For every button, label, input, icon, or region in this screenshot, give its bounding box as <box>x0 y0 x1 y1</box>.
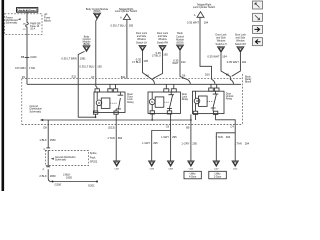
svg-text:0.8 ORN: 0.8 ORN <box>15 66 26 70</box>
relay K3 label <box>226 93 234 101</box>
note box Utility 2-Door <box>209 171 227 179</box>
border bar left <box>2 0 5 191</box>
svg-text:1381: 1381 <box>80 56 86 60</box>
splice pack label <box>90 152 98 163</box>
svg-text:B8: B8 <box>21 55 25 59</box>
I/P Fuse Block label <box>44 13 51 23</box>
svg-text:2 BLK: 2 BLK <box>39 174 47 178</box>
svg-text:194: 194 <box>204 21 209 25</box>
toolbar button 3 <box>253 25 263 33</box>
svg-text:SP202: SP202 <box>90 161 98 164</box>
BCM connector mid-right <box>176 32 185 50</box>
svg-text:10 A: 10 A <box>30 27 35 30</box>
svg-text:2-Door: 2-Door <box>214 175 222 178</box>
hook D6 <box>187 79 191 84</box>
svg-text:Relay: Relay <box>127 101 134 104</box>
svg-text:C451: C451 <box>233 168 238 170</box>
svg-text:C9: C9 <box>166 124 170 128</box>
wire A7 into relay 1 <box>96 79 97 89</box>
hook D10 <box>212 79 216 84</box>
Tailgate/Right Lock Cylinder Switch connector A (right) <box>193 4 216 18</box>
fuse F14 <box>23 22 41 31</box>
svg-text:Lock Cylinder Switch: Lock Cylinder Switch <box>193 6 216 9</box>
svg-text:1550: 1550 <box>50 138 56 142</box>
svg-text:E11: E11 <box>72 74 77 78</box>
svg-text:C407: C407 <box>214 168 219 170</box>
door lock relay K2 <box>148 84 181 114</box>
svg-text:0.35 LT BRN: 0.35 LT BRN <box>61 56 76 60</box>
internal feed bus <box>27 79 241 85</box>
hook A6 <box>151 79 155 85</box>
svg-text:C4: C4 <box>230 124 234 128</box>
svg-text:Relay: Relay <box>182 98 189 101</box>
svg-text:194: 194 <box>181 60 186 64</box>
svg-text:C200: C200 <box>30 55 37 59</box>
wire 0.35 LT BLU 195 to B11 <box>126 20 128 79</box>
relay block dashed box <box>22 74 243 125</box>
svg-text:C407: C407 <box>114 168 119 170</box>
svg-text:Splice: Splice <box>90 152 97 155</box>
bottom connector triangles <box>114 161 239 171</box>
wire 0.35 LT BLU 195 from BCM <box>96 19 97 79</box>
svg-text:194: 194 <box>242 60 247 64</box>
svg-text:295: 295 <box>192 142 197 146</box>
Body Relay Block label <box>245 75 252 83</box>
svg-text:C409: C409 <box>149 168 154 170</box>
svg-text:1 GRY: 1 GRY <box>161 135 169 139</box>
svg-text:Switch RH: Switch RH <box>235 43 246 46</box>
svg-text:294: 294 <box>245 142 250 146</box>
svg-text:Block: Block <box>44 19 51 23</box>
note box Utility 4-Door <box>184 171 201 179</box>
Door Lock and Side Window Switch RH connector (right) <box>235 33 247 52</box>
svg-text:WHT: WHT <box>172 61 178 65</box>
svg-text:1 TAN: 1 TAN <box>107 136 114 140</box>
wire from header into fuse block <box>26 12 28 22</box>
Power Distribution Schematic reference <box>6 16 21 24</box>
svg-text:(BCM): (BCM) <box>94 10 101 13</box>
svg-text:G200: G200 <box>55 183 62 187</box>
wire unlock LH merge <box>221 52 230 79</box>
wire D13 1 TAN 694 <box>115 114 117 161</box>
svg-text:1650: 1650 <box>66 175 72 179</box>
svg-text:M: M <box>151 100 153 104</box>
svg-text:Schematic: Schematic <box>6 21 18 24</box>
svg-text:1740: 1740 <box>29 66 35 70</box>
svg-text:B11: B11 <box>121 75 126 79</box>
svg-text:195: 195 <box>144 59 149 63</box>
svg-text:F9: F9 <box>22 75 26 79</box>
svg-text:M: M <box>196 99 198 103</box>
svg-text:Hot At All Times: Hot At All Times <box>19 9 36 12</box>
svg-text:194: 194 <box>222 55 227 59</box>
relay K1 label <box>127 93 134 104</box>
svg-text:1650: 1650 <box>50 174 56 178</box>
svg-text:Relay: Relay <box>226 98 233 101</box>
svg-text:295: 295 <box>172 135 177 139</box>
svg-text:1 GRY: 1 GRY <box>181 142 189 146</box>
ground G200 <box>52 181 54 183</box>
wire 0.35 WHT 194 to D10 <box>200 17 212 79</box>
svg-text:D10: D10 <box>205 73 210 77</box>
Door Lock and Side Window Switch-RH connector (mid) <box>157 32 169 51</box>
svg-text:Switch-LH: Switch-LH <box>216 43 227 46</box>
svg-text:C406: C406 <box>189 168 194 170</box>
svg-text:1 TAN: 1 TAN <box>215 135 222 139</box>
junction <box>95 116 97 118</box>
wire unlock RH merge <box>232 52 241 76</box>
wire E11 internal <box>78 79 95 118</box>
svg-text:295: 295 <box>153 141 158 145</box>
svg-text:195: 195 <box>97 64 102 68</box>
svg-text:B9: B9 <box>186 126 190 130</box>
svg-text:M: M <box>98 101 100 105</box>
svg-text:195: 195 <box>129 23 134 27</box>
svg-text:0.35 WHT: 0.35 WHT <box>207 55 219 59</box>
Hot At All Times header box <box>17 8 38 13</box>
svg-text:Block: Block <box>245 81 252 84</box>
svg-text:0.35 LT BLU: 0.35 LT BLU <box>79 64 94 68</box>
Door Lock and Side Window Switch-LH connector (right) <box>216 33 228 52</box>
ground bus internal <box>40 114 196 125</box>
svg-text:Lock Cylinder Switch: Lock Cylinder Switch <box>115 10 138 13</box>
svg-text:294: 294 <box>226 135 231 139</box>
svg-text:LT BLU: LT BLU <box>132 60 141 64</box>
svg-text:4-Door: 4-Door <box>189 175 197 178</box>
Tailgate/Right Lock Cylinder Switch connector A (left) <box>115 8 138 20</box>
wire lock LH <box>143 51 152 79</box>
svg-text:A7: A7 <box>91 75 95 79</box>
svg-text:D6: D6 <box>182 74 186 78</box>
svg-text:1 TAN: 1 TAN <box>234 142 241 146</box>
wire lock RH merge <box>153 51 163 79</box>
svg-text:1 BLK: 1 BLK <box>39 138 47 142</box>
Door Lock and Side Window Switch-LH connector (mid) <box>136 32 148 51</box>
I/P fuse block dashed box <box>5 14 42 35</box>
svg-text:Pack: Pack <box>90 156 96 159</box>
svg-text:694: 694 <box>118 136 123 140</box>
wire B9 1 GRY 295 <box>190 120 192 161</box>
svg-text:0.35 WHT: 0.35 WHT <box>227 60 239 64</box>
Ground Distribution Schematic reference (module) <box>30 105 43 113</box>
svg-text:0.35 LT BLU: 0.35 LT BLU <box>111 23 126 27</box>
svg-text:Schematic: Schematic <box>30 110 42 113</box>
svg-text:G201: G201 <box>88 184 95 188</box>
svg-text:(BCM): (BCM) <box>83 43 90 46</box>
svg-text:C408: C408 <box>168 168 173 170</box>
svg-text:E9: E9 <box>226 73 230 77</box>
rear door lock relay K1 <box>93 84 125 114</box>
relay K2 label <box>182 93 189 101</box>
svg-text:Schematic: Schematic <box>55 159 67 162</box>
toolbar button 4 <box>253 38 263 46</box>
toolbar button 2 <box>253 13 263 21</box>
toolbar button 1 <box>253 1 263 9</box>
svg-text:195: 195 <box>163 53 168 57</box>
wire 0.35 WHT 194 to D6 <box>180 50 187 79</box>
svg-text:(BCM): (BCM) <box>177 42 184 45</box>
connector C200 <box>21 55 37 59</box>
label 0.8 ORN 1740 <box>15 66 35 70</box>
wire 0.8 ORN 1740 <box>26 27 28 79</box>
svg-text:D8: D8 <box>43 126 47 130</box>
svg-text:1 GRY: 1 GRY <box>142 141 150 145</box>
svg-text:A6: A6 <box>146 74 150 78</box>
wire 0.35 LT BRN 1381 to E11 <box>78 51 84 78</box>
svg-text:LT BLU: LT BLU <box>152 54 161 58</box>
BCM connector mid-left <box>83 35 92 51</box>
label 2 BLK 1650 <box>39 174 56 178</box>
door unlock relay K3 <box>193 84 225 114</box>
svg-text:0.35 WHT: 0.35 WHT <box>187 21 199 25</box>
wire D8 ground leg <box>48 125 97 182</box>
splice pack SP202 dashed box <box>45 151 88 166</box>
svg-text:Switch-LH: Switch-LH <box>136 41 147 44</box>
ground G201 <box>96 181 98 183</box>
svg-text:Switch-RH: Switch-RH <box>157 41 169 44</box>
svg-text:(D13): (D13) <box>108 126 115 130</box>
hook E9 <box>230 79 234 84</box>
wire C9 1 GRY 295 with branch <box>152 114 171 161</box>
BCM connector top <box>86 8 109 19</box>
wire C4 1 TAN 294 with branch <box>216 114 236 160</box>
